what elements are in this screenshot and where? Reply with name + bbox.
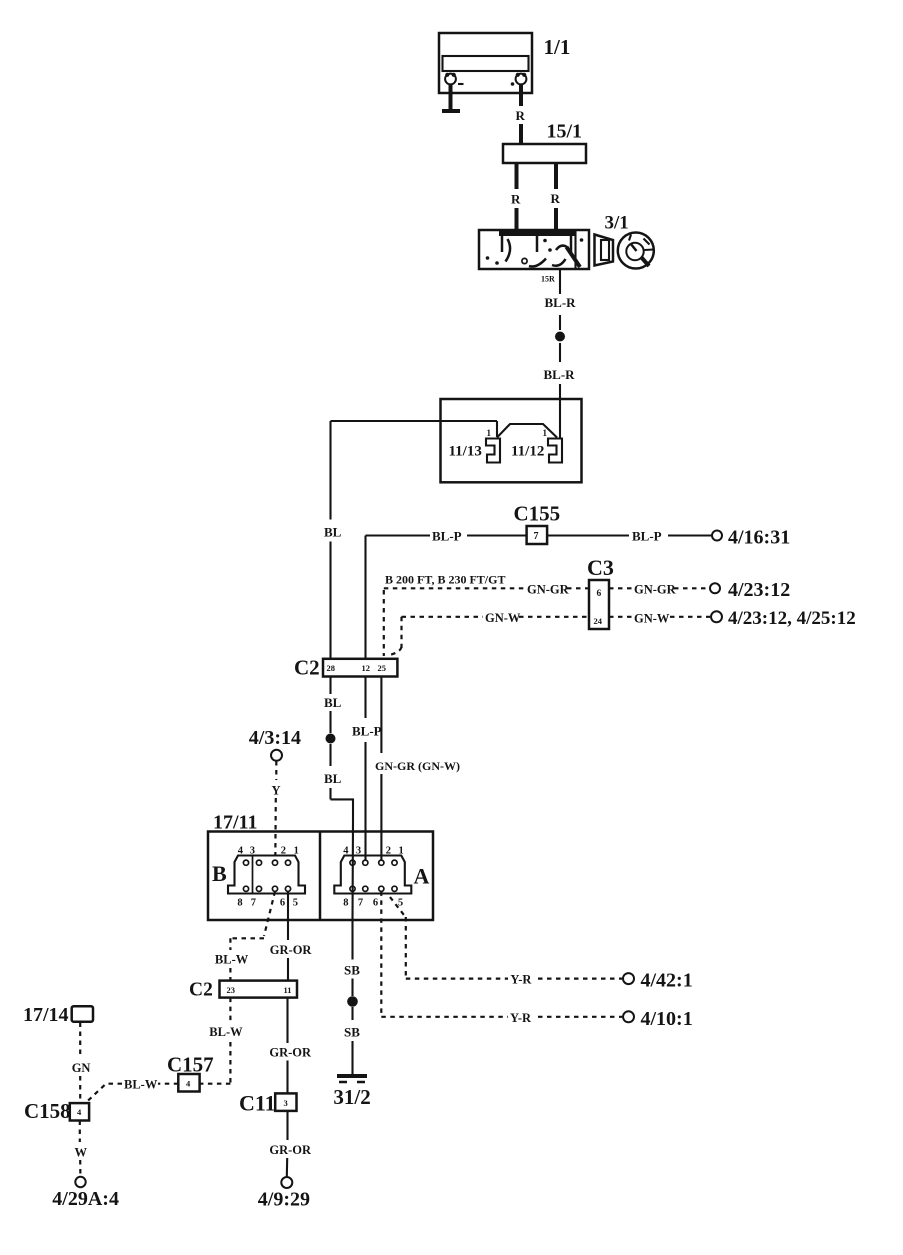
wire BL C2 to switch A pin 4: [324, 677, 342, 734]
connector C2 lower: [189, 980, 297, 1001]
B pin 3: [250, 846, 262, 866]
A pin 2: [379, 846, 391, 866]
svg-text:BL-W: BL-W: [124, 1078, 158, 1092]
connector C2: [294, 656, 397, 680]
svg-text:1: 1: [487, 428, 492, 438]
svg-text:4: 4: [238, 846, 244, 857]
ignition switch 3/1: [479, 213, 629, 284]
svg-text:7: 7: [534, 531, 539, 542]
A pin 6: [373, 886, 384, 908]
ignition key cylinder: [618, 233, 654, 269]
svg-text:24: 24: [594, 616, 603, 626]
component 17/14: [23, 1004, 93, 1026]
svg-text:17/11: 17/11: [213, 812, 257, 834]
svg-text:BL-P: BL-P: [352, 724, 382, 739]
svg-text:BL-R: BL-R: [544, 367, 576, 382]
svg-text:4: 4: [343, 846, 349, 857]
terminal 4/29A:4: [52, 1177, 119, 1210]
relay box 11/13 11/12: [441, 399, 582, 482]
svg-text:A: A: [414, 864, 430, 889]
svg-text:BL-W: BL-W: [209, 1025, 243, 1039]
wire BL-R ignition to relay box: [545, 269, 577, 330]
A pin 3: [356, 846, 368, 866]
A pin 1: [392, 846, 404, 866]
wire GN-W dashed riser from C2 pin 25: [387, 611, 589, 656]
svg-text:4/16:31: 4/16:31: [728, 527, 790, 549]
splice on BL-R: [555, 332, 565, 342]
switch section B housing: [228, 856, 305, 894]
svg-text:3/1: 3/1: [605, 213, 629, 234]
svg-text:17/14: 17/14: [23, 1004, 69, 1026]
svg-text:BL-P: BL-P: [432, 529, 462, 544]
svg-text:4/9:29: 4/9:29: [258, 1189, 310, 1211]
svg-text:GR-OR: GR-OR: [269, 1046, 312, 1060]
wire Y-R dashed A pin 6 to 4/10:1: [381, 891, 622, 1024]
svg-text:31/2: 31/2: [333, 1085, 370, 1109]
wire GR-OR lower C2 to C11: [269, 998, 312, 1094]
B pin 6: [272, 886, 285, 908]
fuse 11/13: [449, 428, 501, 463]
svg-text:4/23:12, 4/25:12: 4/23:12, 4/25:12: [728, 608, 856, 629]
svg-text:11/13: 11/13: [449, 444, 482, 460]
A pin 4: [343, 846, 355, 866]
svg-text:GR-OR: GR-OR: [270, 943, 313, 957]
svg-text:C11: C11: [239, 1091, 276, 1116]
fuse box 15/1: [503, 121, 586, 164]
ground 31/2: [333, 1076, 370, 1109]
terminal 4/16:31: [712, 527, 790, 549]
svg-text:C158: C158: [24, 1099, 71, 1123]
wire GR-OR C11 to 4/9:29: [269, 1111, 312, 1177]
battery negative terminal: [445, 73, 463, 85]
A pin 8: [343, 886, 355, 908]
wire BL-P C2 to switch A pin 3: [352, 677, 382, 861]
B pin 8: [237, 886, 248, 908]
svg-text:6: 6: [597, 589, 602, 599]
svg-text:4/23:12: 4/23:12: [728, 579, 790, 601]
svg-text:B: B: [212, 861, 227, 886]
wire SB to ground splice: [344, 921, 360, 996]
connector C158: [24, 1099, 89, 1123]
A pin 7: [358, 886, 368, 908]
svg-text:Y: Y: [272, 784, 281, 798]
B pin 7: [251, 886, 262, 908]
terminal 4/42:1: [623, 970, 693, 992]
svg-text:SB: SB: [344, 963, 360, 978]
svg-text:11/12: 11/12: [511, 444, 544, 460]
svg-text:GN-W: GN-W: [634, 612, 670, 626]
svg-text:GN-GR: GN-GR: [527, 583, 570, 597]
link wire between fuse pins: [497, 424, 557, 438]
connector C155: [514, 502, 561, 545]
svg-text:BL: BL: [324, 695, 342, 710]
svg-text:Y-R: Y-R: [510, 1011, 532, 1025]
svg-text:R: R: [511, 192, 521, 207]
svg-text:SB: SB: [344, 1025, 360, 1040]
wire R right fuse output: [551, 163, 561, 231]
svg-text:4/29A:4: 4/29A:4: [52, 1188, 119, 1210]
svg-text:C155: C155: [514, 502, 561, 526]
svg-text:W: W: [75, 1146, 88, 1160]
svg-text:7: 7: [251, 898, 256, 909]
wire GN dashed 17/14 to C158: [72, 1023, 91, 1104]
svg-text:6: 6: [373, 898, 378, 909]
connector C3: [587, 555, 614, 629]
wire GN-W C3 to 4/23:12, 4/25:12: [609, 612, 710, 626]
svg-text:BL: BL: [324, 525, 342, 540]
svg-text:C157: C157: [167, 1053, 214, 1077]
svg-text:8: 8: [237, 898, 242, 909]
svg-text:7: 7: [358, 898, 363, 909]
wire BL relay to C2 pin 28: [324, 421, 342, 659]
wire BL-P riser C2 pin 12 to C155: [366, 529, 527, 659]
svg-text:GN-GR: GN-GR: [634, 583, 677, 597]
wire BL-W dashed below C2 to C157: [200, 998, 244, 1084]
terminal 4/10:1: [623, 1008, 693, 1030]
switch section A housing: [334, 856, 411, 894]
B pin 4: [238, 846, 249, 866]
svg-text:BL-W: BL-W: [215, 953, 249, 967]
svg-text:R: R: [516, 108, 526, 123]
svg-text:11: 11: [284, 985, 292, 995]
wire BL-R below splice: [544, 343, 576, 438]
svg-text:28: 28: [327, 663, 336, 673]
svg-text:BL-P: BL-P: [632, 529, 662, 544]
ground at battery: [442, 84, 460, 111]
svg-text:4/3:14: 4/3:14: [249, 727, 301, 749]
svg-text:3: 3: [356, 846, 361, 857]
svg-text:B 200 FT, B 230 FT/GT: B 200 FT, B 230 FT/GT: [385, 573, 505, 587]
svg-text:1: 1: [399, 846, 404, 857]
battery positive terminal: [511, 73, 527, 86]
connector C11: [239, 1091, 297, 1116]
svg-text:GN-GR (GN-W): GN-GR (GN-W): [375, 759, 460, 773]
wire BL below splice: [324, 744, 353, 820]
wire GN-GR C3 to 4/23:12: [609, 583, 709, 597]
svg-text:8: 8: [343, 898, 348, 909]
svg-text:C3: C3: [587, 555, 614, 580]
splice on SB: [347, 996, 358, 1007]
svg-text:5: 5: [293, 898, 298, 909]
svg-text:C2: C2: [189, 980, 213, 1001]
connector C157: [167, 1053, 214, 1092]
wire through A pins 4-8: [351, 820, 354, 921]
svg-text:6: 6: [280, 898, 285, 909]
svg-text:2: 2: [386, 846, 391, 857]
svg-text:3: 3: [284, 1098, 288, 1108]
wire R left fuse output: [511, 163, 521, 231]
svg-text:15R: 15R: [541, 275, 555, 284]
svg-text:GN: GN: [72, 1061, 91, 1075]
svg-text:BL-R: BL-R: [545, 295, 577, 310]
svg-text:23: 23: [227, 985, 236, 995]
svg-text:GR-OR: GR-OR: [269, 1143, 312, 1157]
svg-text:15/1: 15/1: [547, 121, 583, 143]
svg-text:2: 2: [281, 846, 286, 857]
svg-text:Y-R: Y-R: [510, 973, 532, 987]
terminal 4/9:29: [258, 1177, 310, 1211]
wire GR-OR B to lower C2 pin 11: [270, 891, 313, 980]
svg-text:3: 3: [250, 846, 255, 857]
wire from relay to BL riser: [331, 421, 498, 437]
battery 1/1: [439, 33, 570, 93]
ignition key link: [595, 235, 614, 266]
wire Y dashed to switch B pin 2: [272, 761, 281, 860]
svg-text:C2: C2: [294, 656, 320, 680]
svg-text:1/1: 1/1: [544, 35, 571, 59]
A pin 5: [392, 886, 403, 908]
svg-text:1: 1: [543, 428, 548, 438]
terminal 4/23:12: [710, 579, 790, 601]
fuse 11/12: [511, 428, 562, 463]
B pin 5: [285, 886, 298, 908]
wire BL-P C155 to 4/16:31: [547, 529, 711, 544]
wire SB below splice: [344, 1007, 360, 1075]
svg-text:BL: BL: [324, 771, 342, 786]
wire W dashed C158 to 4/29A:4: [75, 1121, 88, 1177]
wire Y-R dashed A pin 5 to 4/42:1: [390, 897, 622, 987]
splice on BL: [326, 734, 336, 744]
svg-text:GN-W: GN-W: [485, 611, 521, 625]
wire BL-W dashed B to lower C2 pin 23: [215, 891, 275, 980]
svg-text:25: 25: [378, 663, 387, 673]
wire GN-GR (GN-W) C2 to switch A pin 2: [375, 677, 460, 861]
terminal 4/23:12, 4/25:12: [711, 608, 856, 629]
svg-text:4/42:1: 4/42:1: [641, 970, 693, 992]
wire R battery to fuse 15/1: [516, 84, 526, 144]
svg-text:4/10:1: 4/10:1: [641, 1008, 693, 1030]
terminal 4/3:14: [249, 727, 301, 761]
B pin 2: [272, 846, 286, 866]
switch assembly 17/11: [208, 812, 433, 921]
svg-text:1: 1: [294, 846, 299, 857]
wire GN-GR dashed riser from C2 pin 25: [384, 583, 589, 657]
svg-text:R: R: [551, 191, 561, 206]
B pin 1: [285, 846, 298, 866]
wire BL-W dashed C157 to C158: [87, 1078, 179, 1103]
svg-text:12: 12: [362, 663, 371, 673]
